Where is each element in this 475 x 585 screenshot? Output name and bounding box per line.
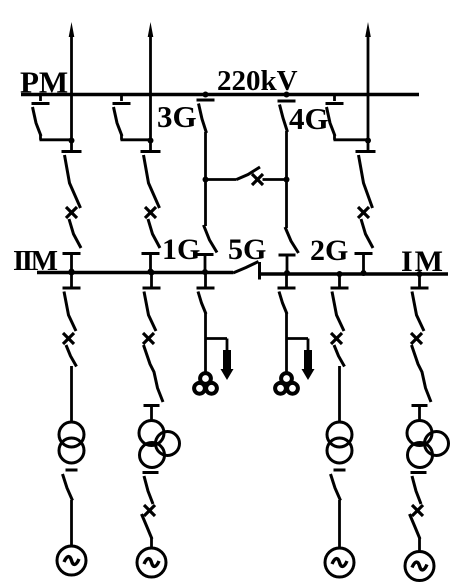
disconnector 3G	[197, 99, 215, 102]
disconnector PT2 (IM) branch	[278, 287, 296, 290]
circuit breaker unit G4	[411, 333, 422, 344]
wire unit G3 to generator	[338, 500, 341, 548]
wire 1G to IIM bus	[204, 255, 207, 273]
wire feeder W3 to upper disconnector	[367, 141, 370, 152]
svg-text:IIM: IIM	[13, 245, 58, 277]
wire feeder W2 to main bus	[149, 254, 152, 273]
busbar PM (bypass bus, 220kV)	[21, 93, 419, 97]
disconnector unit G3 generator side	[334, 469, 346, 472]
disconnector 4G	[278, 100, 296, 103]
wire drop from node A to 1G	[204, 180, 207, 227]
disconnector feeder W1 lower (bus side)	[63, 252, 81, 255]
disconnector PT1 (IIM) branch	[197, 287, 215, 290]
wire unit G1 stub below bus	[70, 273, 73, 288]
circuit breaker bus-tie / bypass (between A and B)	[237, 167, 261, 180]
node A (left tie node)	[203, 177, 209, 183]
disconnector W2 bypass-bus side (branch from PM)	[120, 96, 123, 101]
surge arrester of PT1 (IIM) branch (down arrow)	[223, 350, 231, 370]
wire PT2 (IM) branch tee to arrester	[286, 337, 309, 340]
svg-text:1G: 1G	[162, 233, 200, 266]
wire unit G2 stub below bus	[150, 273, 153, 288]
wire unit G2 to generator	[150, 539, 153, 549]
disconnector unit G2 bus side	[143, 287, 161, 290]
circuit breaker unit G1	[63, 333, 74, 344]
disconnector unit G2 generator side blade	[144, 476, 153, 504]
wire unit G2 to transformer	[150, 406, 153, 422]
line feeder W3 outgoing line with arrow	[365, 22, 371, 37]
wire unit G4 to transformer	[418, 406, 421, 422]
disconnector W1 bypass-bus side (branch from PM)	[39, 96, 42, 101]
wire 2G to IM bus	[286, 255, 289, 273]
disconnector unit G4 transformer side contact	[412, 404, 428, 407]
disconnector unit G4 generator side blade	[412, 476, 421, 504]
surge arrester of PT2 (IM) branch (down arrow)	[304, 350, 312, 370]
line feeder W2 outgoing line with arrow	[148, 22, 154, 37]
node B (right tie node)	[284, 177, 290, 183]
wire unit G3 stub below bus	[338, 274, 341, 287]
wire unit G1 to transformer	[70, 366, 73, 423]
wire feeder W1 to upper disconnector	[70, 141, 73, 152]
wire bypass branch of feeder W2	[120, 135, 123, 140]
wire drop from 3G to tie node A	[204, 132, 207, 180]
wire feeder W2 to upper disconnector	[149, 141, 152, 152]
wire PT2 (IM) branch vertical	[285, 313, 288, 373]
line feeder W1 outgoing line with arrow	[69, 22, 75, 37]
node unit G4 tap on main bus	[417, 271, 423, 277]
busbar IM (right main bus section)	[260, 272, 449, 276]
wire PT2 (IM) branch stub below bus	[285, 274, 288, 287]
node junction of feeder W2 below PM	[148, 138, 154, 144]
circuit breaker feeder W1	[66, 207, 77, 218]
disconnector unit G1 bus side	[63, 287, 81, 290]
wire drop from node B to 2G	[285, 180, 288, 229]
circuit breaker feeder W2	[145, 207, 156, 218]
circuit breaker unit G2 generator side	[144, 505, 155, 516]
transformer unit G3 (two-winding)	[327, 422, 352, 447]
circuit breaker unit G2	[143, 333, 154, 344]
circuit breaker unit G4 generator side	[412, 505, 423, 516]
generator unit G2	[137, 548, 166, 577]
disconnector 5G (bus sectionalizer)	[233, 262, 259, 274]
svg-text:4G: 4G	[289, 101, 329, 136]
disconnector unit G1 generator side	[66, 469, 78, 472]
wire unit G4 stub below bus	[418, 274, 421, 287]
svg-text:IM: IM	[401, 245, 445, 278]
wire drop from 4G to tie node B	[285, 131, 288, 180]
voltage transformer PT2 (IM) (three-winding trefoil)	[281, 373, 292, 384]
wire unit G3 to transformer	[338, 366, 341, 423]
disconnector unit G3 bus side	[331, 287, 349, 290]
circuit breaker unit G3	[331, 333, 342, 344]
node unit G1 tap on main bus	[69, 270, 75, 276]
disconnector feeder W3 lower (bus side)	[355, 252, 373, 255]
generator unit G3	[325, 548, 354, 577]
wire bypass branch of feeder W1	[39, 135, 42, 140]
wire PT1 (IIM) branch tee to arrester	[205, 337, 228, 340]
wire tie link right segment	[263, 178, 287, 181]
disconnector unit G2 transformer side contact	[144, 404, 160, 407]
node junction of feeder W3 below PM	[365, 138, 371, 144]
svg-text:3G: 3G	[157, 99, 197, 134]
wire unit G4 to generator	[418, 539, 421, 552]
disconnector W3 bypass-bus side (branch from PM)	[333, 96, 336, 101]
disconnector feeder W2 upper	[141, 150, 161, 153]
node junction of feeder W1 below PM	[69, 138, 75, 144]
wire PT1 (IIM) branch vertical	[204, 313, 207, 373]
node unit G2 tap on main bus	[149, 270, 155, 276]
transformer unit G2 (three-winding)	[139, 421, 164, 446]
wire unit G1 to generator	[70, 500, 73, 546]
disconnector 1G	[204, 225, 218, 253]
wire feeder W1 to main bus	[70, 254, 73, 273]
circuit breaker feeder W3	[358, 207, 369, 218]
voltage transformer PT1 (IIM) (three-winding trefoil)	[200, 373, 211, 384]
wire bypass branch of feeder W3	[333, 135, 336, 140]
node PM tap of 4G	[284, 92, 290, 98]
node PM tap of 3G	[203, 92, 209, 98]
wire tie link left segment	[206, 178, 237, 181]
wire feeder W3 to main bus	[362, 254, 365, 275]
disconnector 2G	[285, 227, 299, 253]
transformer unit G4 (three-winding)	[407, 421, 432, 446]
svg-text:5G: 5G	[228, 233, 266, 266]
disconnector unit G2 generator side contact	[143, 471, 159, 474]
svg-text:2G: 2G	[310, 234, 348, 267]
disconnector feeder W1 upper	[62, 150, 82, 153]
node unit G3 tap on main bus	[337, 271, 343, 277]
svg-text:PM: PM	[20, 65, 68, 100]
disconnector feeder W2 lower (bus side)	[142, 252, 160, 255]
disconnector feeder W3 upper	[356, 150, 376, 153]
disconnector unit G4 generator side contact	[411, 471, 427, 474]
busbar IIM (left main bus section)	[37, 271, 233, 275]
generator unit G4	[405, 552, 434, 581]
generator unit G1	[57, 546, 86, 575]
transformer unit G1 (two-winding)	[59, 422, 84, 447]
disconnector unit G4 bus side	[411, 287, 429, 290]
wire PT1 (IIM) branch stub below bus	[204, 274, 207, 287]
